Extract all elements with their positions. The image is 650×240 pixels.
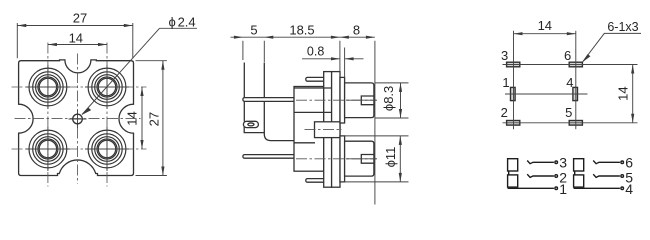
- svg-text:6-1x3: 6-1x3: [607, 20, 638, 34]
- center hole phi2.4 crosshair: [69, 110, 87, 128]
- extension lines top dims: [243, 41, 375, 205]
- construction line right column: [575, 31, 577, 129]
- dimension 14 footprint top: [514, 18, 576, 36]
- centerline upper jack axis: [296, 99, 377, 101]
- svg-text:27: 27: [73, 10, 87, 25]
- bracket bottom tail: [244, 127, 264, 133]
- boss centerline: [305, 129, 343, 131]
- svg-text:5: 5: [565, 105, 572, 120]
- pin (lower long): [243, 155, 295, 159]
- bracket right face and step: [264, 63, 294, 141]
- pad pin6: [569, 62, 582, 67]
- centerline vertical through left jack column: [47, 43, 49, 187]
- svg-text:2: 2: [559, 169, 567, 185]
- plastic body block: [294, 87, 324, 172]
- jack J2 top-right concentric rings: [88, 68, 126, 106]
- svg-text:4: 4: [566, 75, 573, 90]
- svg-text:5: 5: [250, 23, 257, 38]
- jack A terminal 3 switch contact wire: [527, 161, 554, 164]
- jack J4 bottom-right concentric rings: [88, 130, 126, 168]
- svg-text:8: 8: [353, 23, 360, 38]
- dimension row 5 / 18.5 / 8: [231, 23, 375, 39]
- svg-text:6: 6: [564, 48, 571, 63]
- dimension 14 horizontal top: [48, 30, 107, 46]
- center boss between jacks: [315, 122, 341, 138]
- jack B terminal 6 switch contact wire: [593, 161, 620, 164]
- jack B terminal 5 circle: [621, 175, 624, 178]
- svg-text:ϕ11: ϕ11: [383, 147, 398, 168]
- pad pin3: [507, 62, 520, 67]
- svg-text:18.5: 18.5: [289, 23, 314, 38]
- jack A terminal 3 circle: [555, 161, 558, 164]
- jack J1 top-left concentric rings: [29, 68, 67, 106]
- jack J3 bottom-left concentric rings: [29, 130, 67, 168]
- barrel upper jack: [345, 83, 374, 118]
- svg-text:0.8: 0.8: [307, 44, 324, 58]
- svg-text:14: 14: [616, 86, 631, 100]
- dimension 14 vertical right: [125, 87, 144, 149]
- dimension 0.8 flange thickness: [302, 44, 364, 77]
- dimension phi8.3 upper barrel: [375, 83, 409, 118]
- leader and label phi2.4: [82, 14, 197, 115]
- construction line row 1: [503, 64, 638, 66]
- svg-text:1: 1: [502, 75, 509, 90]
- dimension 27 horizontal top: [17, 10, 133, 58]
- svg-text:14: 14: [69, 30, 83, 45]
- leader and label 6-1x3: [582, 20, 641, 63]
- body outline with edge scallops: [19, 60, 134, 176]
- centerline horizontal through top jack row: [12, 86, 147, 88]
- svg-text:ϕ8.3: ϕ8.3: [381, 86, 396, 111]
- body internal shell lines: [294, 88, 332, 143]
- construction line row 2: [505, 93, 588, 95]
- pin (top, from plate): [306, 77, 327, 81]
- pad pin1: [511, 87, 516, 100]
- svg-text:27: 27: [146, 112, 161, 126]
- jack B terminal 4 wire: [574, 187, 620, 189]
- jack A body squares: [508, 159, 518, 171]
- pin (middle row): [243, 98, 295, 102]
- dimension 14 footprint right: [616, 65, 635, 123]
- centerline vertical through right jack column: [106, 43, 108, 187]
- svg-text:14: 14: [538, 18, 552, 33]
- jack A terminal 2 circle: [555, 175, 558, 178]
- mounting bracket plate: [243, 63, 245, 122]
- centerline horizontal body middle: [15, 118, 141, 120]
- dimension phi11 lower flange: [342, 136, 409, 182]
- front plate 1: [324, 72, 332, 188]
- pad pin4: [573, 87, 578, 100]
- svg-text:5: 5: [625, 169, 633, 185]
- centerline vertical body middle: [77, 54, 79, 184]
- centerline long dashes through barrels: [346, 100, 377, 159]
- dimension 27 vertical right: [136, 61, 167, 176]
- pad pin5: [569, 121, 582, 126]
- jack A terminal 1 circle: [555, 187, 558, 190]
- flange disk upper jack: [340, 77, 345, 123]
- front plate 2: [332, 72, 340, 188]
- centerline lower jack axis: [296, 158, 377, 160]
- svg-text:14: 14: [125, 111, 140, 125]
- centerline horizontal through bottom jack row: [12, 148, 147, 150]
- jack A square link: [508, 171, 510, 175]
- jack B terminal 5 switch contact wire: [593, 174, 620, 177]
- barrel lower tip recess: [361, 155, 374, 164]
- svg-text:ϕ2.4: ϕ2.4: [169, 14, 196, 29]
- center hole phi2.4: [73, 114, 83, 124]
- jack B terminal 4 circle: [621, 187, 624, 190]
- jack A terminal 1 wire: [508, 187, 554, 189]
- jack crosshair long dashes: [26, 65, 129, 171]
- barrel lower jack: [345, 141, 374, 176]
- construction line row 3: [503, 122, 638, 124]
- bracket solder lug eyelet: [243, 121, 258, 127]
- jack A terminal 2 switch contact wire: [527, 174, 554, 177]
- svg-text:6: 6: [625, 155, 633, 171]
- jack B terminal 6 circle: [621, 161, 624, 164]
- pin (bottom, from plate): [306, 179, 327, 183]
- svg-text:2: 2: [501, 105, 508, 120]
- svg-text:3: 3: [559, 155, 567, 171]
- svg-text:3: 3: [501, 48, 508, 63]
- jack B square link: [574, 171, 576, 175]
- barrel upper tip recess: [361, 96, 374, 105]
- construction line left column: [513, 31, 515, 129]
- pad pin2: [507, 121, 520, 126]
- jack B body squares: [574, 159, 584, 171]
- flange disk lower jack: [340, 136, 345, 182]
